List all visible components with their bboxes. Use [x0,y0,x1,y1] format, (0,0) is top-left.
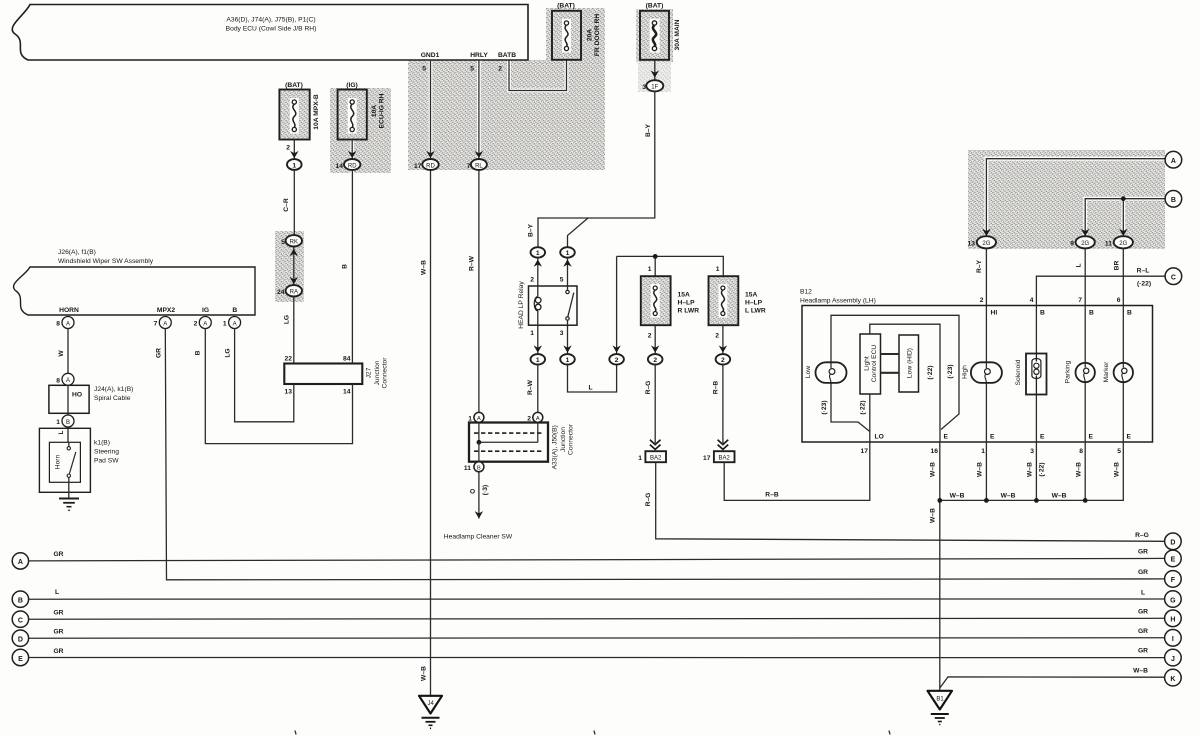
wire L relay pin3 to fuse rail [568,365,617,393]
svg-text:A: A [536,416,540,422]
wire R-B from connector 2 to BA2 [713,365,723,444]
svg-text:(BAT): (BAT) [285,82,303,89]
svg-text:2: 2 [715,333,719,340]
svg-text:H–LP: H–LP [678,300,696,307]
connector 1 (relay pin 2 top) [531,247,546,257]
connector 13 2G [968,236,996,248]
wire B from IG pin to J27 pin 14 [195,329,353,444]
connector 1 (relay pin 5 top) [560,247,575,257]
svg-text:1F: 1F [651,85,658,91]
svg-text:BA2: BA2 [650,456,662,462]
svg-text:GR: GR [53,648,63,655]
wire ECU bottom to LO pin 17 [860,394,870,442]
page connector A (left) [12,553,28,569]
connector J26(A), f1(B) Windshield Wiper SW Assembly box [14,249,255,315]
wire W-B ground bus below headlamp [937,442,1123,691]
wire with mating arrows RK to RA [290,247,298,285]
wire W from HORN pin to spiral cable [58,329,68,374]
svg-text:R–W: R–W [469,255,476,271]
page connector B (left) [12,591,28,607]
page connector D (right) [1165,533,1182,550]
connector 17 BA2 [703,451,734,462]
svg-text:B: B [232,307,237,314]
wire GR page D to page I [29,628,1165,638]
svg-text:1: 1 [716,266,720,273]
connector 1 (relay pin 3 bottom) [560,354,575,364]
svg-text:7: 7 [154,321,158,328]
svg-text:GR: GR [1138,628,1148,635]
wire fuse IG to connector RD [348,140,356,159]
svg-text:Spiral Cable: Spiral Cable [94,395,131,402]
svg-text:Pad SW: Pad SW [94,458,119,465]
shaded halftone strip behind RK/RA connectors [275,231,304,302]
svg-text:1: 1 [648,266,652,273]
svg-text:3: 3 [1030,448,1034,455]
svg-text:30A MAIN: 30A MAIN [674,19,681,50]
svg-text:B: B [1127,310,1132,317]
connector 1 (ellipse) [287,159,302,170]
wire fuse rail [617,254,724,276]
page connector E (left) [12,649,28,665]
svg-text:H: H [1170,617,1175,624]
svg-text:B: B [1089,310,1094,317]
svg-text:HEAD LP Relay: HEAD LP Relay [518,281,525,329]
svg-text:GR: GR [156,348,163,358]
svg-text:3: 3 [642,84,646,91]
svg-text:Light: Light [864,356,871,371]
svg-text:A: A [163,321,167,327]
svg-text:2: 2 [286,145,290,152]
wire LG from RA to J27 pin 22 [284,297,294,364]
svg-text:Control ECU: Control ECU [871,345,878,383]
svg-text:2: 2 [527,415,531,422]
svg-text:(·23): (·23) [947,364,954,378]
pin labels E 3 [1030,434,1045,456]
svg-text:B–Y: B–Y [645,123,652,137]
wire relay pin 1 to connector with arrow [530,325,542,354]
svg-text:B12: B12 [800,289,812,296]
fold tick marks at page bottom [295,731,890,735]
svg-text:(·3): (·3) [482,485,489,495]
shaded halftone region around 20A FR DOOR RH fuse [546,8,605,61]
svg-text:84: 84 [343,356,351,363]
wire L page B to page G [29,589,1165,599]
svg-text:W: W [58,350,65,357]
wire connector to relay pin 2 with arrow [530,258,542,286]
svg-text:I: I [1172,636,1174,643]
svg-text:1: 1 [56,419,60,426]
svg-text:Body ECU (Cowl Side J/B RH): Body ECU (Cowl Side J/B RH) [226,26,317,33]
svg-text:W–B: W–B [1001,492,1016,499]
svg-text:2: 2 [980,297,984,304]
wire L 2G-9 to headlamp pin 7 [1076,248,1086,305]
svg-text:1: 1 [981,448,985,455]
svg-text:Parking: Parking [1065,360,1072,383]
svg-text:A: A [477,416,481,422]
junction connector J27 [284,356,388,396]
svg-text:W–B: W–B [1027,462,1034,477]
svg-text:E: E [18,656,23,663]
svg-text:W–B: W–B [421,666,428,681]
svg-text:Connector: Connector [382,357,389,389]
fuse 10A MPX-B (BAT) [279,82,320,140]
connector 11 2G [1105,236,1133,248]
junction connector A33(A), J50(B) [469,423,575,470]
svg-text:B: B [1040,310,1045,317]
svg-text:BATB: BATB [498,52,516,59]
svg-text:LG: LG [225,348,232,357]
svg-text:GR: GR [1138,648,1148,655]
svg-text:R–Y: R–Y [976,259,983,273]
svg-text:24: 24 [277,289,285,296]
component B12 Headlamp Assembly (LH) box [800,289,1153,443]
svg-text:1: 1 [566,357,570,364]
svg-text:2: 2 [615,357,619,364]
svg-text:15A: 15A [745,292,757,299]
connector 2 (L LWR) [716,354,731,364]
svg-text:17: 17 [861,448,869,455]
wire HI through High bulb [985,306,987,443]
svg-text:HORN: HORN [59,307,79,314]
pin 8A HORN [56,317,74,329]
svg-text:Marker: Marker [1103,361,1110,383]
svg-text:B–Y: B–Y [528,223,535,237]
pin labels LO 17 [861,434,884,456]
bulb Marker [1103,361,1133,383]
wire links ECU to HID [881,354,900,373]
svg-text:W–B: W–B [1052,492,1067,499]
mating chevrons (R-G into BA2) [650,440,661,450]
wire fuse L LWR to connector 2 [715,325,727,354]
svg-text:C: C [1171,275,1176,282]
svg-text:1: 1 [292,162,296,169]
svg-text:17: 17 [703,455,711,462]
svg-text:L: L [55,589,59,596]
svg-text:HO: HO [72,392,82,399]
svg-text:F: F [1171,577,1176,584]
svg-text:MPX2: MPX2 [157,307,175,314]
svg-text:L: L [588,385,592,392]
svg-text:2: 2 [648,333,652,340]
connector 1 (relay pin 1 bottom) [531,354,546,364]
shaded halftone region around 30A MAIN fuse [636,9,673,62]
svg-text:(IG): (IG) [346,82,358,89]
svg-text:R LWR: R LWR [678,308,700,315]
svg-text:Headlamp Assembly (LH): Headlamp Assembly (LH) [800,298,876,305]
wire BR 2G-11 to headlamp pin 6 [1114,248,1124,305]
svg-text:E: E [1127,434,1132,441]
svg-text:FR DOOR RH: FR DOOR RH [594,14,601,57]
svg-text:LO: LO [875,434,884,441]
svg-text:1: 1 [536,250,540,257]
svg-text:B: B [195,350,202,355]
wire O to headlamp cleaner SW [444,472,513,541]
svg-text:Headlamp Cleaner SW: Headlamp Cleaner SW [444,534,513,541]
svg-text:8: 8 [1079,448,1083,455]
wire R-Y 2G-13 to headlamp pin 2 [976,248,986,305]
connector 5 RK [281,235,302,246]
svg-text:J4: J4 [428,701,435,707]
svg-text:Windshield Wiper SW Assembly: Windshield Wiper SW Assembly [58,258,154,265]
svg-text:L: L [1076,263,1083,267]
svg-text:Horn: Horn [55,454,62,469]
shaded halftone region around GND1/HRLY/BATB wires [408,60,605,170]
svg-text:E: E [1040,434,1045,441]
svg-text:10A MPX-B: 10A MPX-B [313,94,320,130]
svg-text:4: 4 [1030,297,1034,304]
svg-text:B: B [18,598,23,605]
svg-text:High: High [962,365,969,379]
svg-text:(·23): (·23) [821,400,828,414]
svg-text:8: 8 [56,377,60,384]
svg-text:L LWR: L LWR [745,308,766,315]
pin 7A MPX2 [154,317,172,329]
wire B from RD to J27 pin 84 [342,170,353,364]
pin 1B steering pad [56,413,74,427]
bulb High beam [962,362,1002,383]
svg-text:1: 1 [536,357,540,364]
svg-text:RD: RD [426,163,435,169]
svg-text:B: B [342,264,349,269]
svg-text:B: B [66,420,70,426]
wire ECU top to pin 16 drop [870,324,940,442]
svg-text:3: 3 [560,330,564,337]
svg-text:(BAT): (BAT) [557,3,575,10]
page connector J (right) [1165,649,1182,666]
svg-text:W–B: W–B [1076,462,1083,477]
page connector H (right) [1165,610,1182,627]
svg-text:1: 1 [566,250,570,257]
wire relay pin 3 to connector with arrow [560,325,572,354]
wire C-R to RK [283,170,294,235]
wire GR page E to page J [29,648,1165,658]
wire 30A MAIN to connector 1F [651,60,659,80]
svg-text:GR: GR [1138,549,1148,556]
svg-text:R–W: R–W [527,379,534,395]
svg-text:5: 5 [470,66,474,73]
wire R-G from connector 2 to BA2 [645,365,655,444]
svg-text:GND1: GND1 [421,52,440,59]
connector 17 RD [414,159,439,170]
component J24(A), k1(B) Spiral Cable [49,385,133,413]
svg-text:W–B: W–B [421,260,428,275]
wire from page connector B to 2G pins 9 and 11 [1081,196,1165,237]
svg-text:J: J [1171,656,1175,663]
fuse 20A FR DOOR RH (BAT) [552,3,601,60]
shaded halftone region behind 2G connectors [968,150,1165,249]
svg-text:GR: GR [53,629,63,636]
svg-text:W–B: W–B [930,508,937,523]
svg-text:13: 13 [968,241,976,248]
svg-text:R–B: R–B [765,491,779,498]
ground (horn switch) [59,499,79,511]
page connector E (right) [1165,550,1182,567]
svg-text:(·22): (·22) [1137,281,1151,288]
svg-text:E: E [1171,557,1176,564]
relay coil [537,286,539,297]
wire B-Y from 1F to HEAD LP relay [528,91,655,247]
wire loop (+23) feed inside headlamp [821,315,959,431]
svg-text:W–B: W–B [930,462,937,477]
wire R-W relay pin1 to A33 pin 2 [527,365,538,413]
fuse 15A H-LP R LWR [641,276,699,325]
svg-text:(·22): (·22) [927,365,934,379]
svg-text:R–G: R–G [645,381,652,395]
svg-text:GR: GR [53,610,63,617]
svg-text:17: 17 [414,163,422,170]
svg-text:2: 2 [194,321,198,328]
pin labels E 1 [981,434,995,456]
wire R-G from BA2 to page connector D [645,462,1165,541]
pin 2A A33 [527,412,543,422]
svg-text:RA: RA [290,290,298,296]
pin 1A A33 [468,412,484,422]
connector 14 RD [336,159,361,170]
svg-text:A: A [18,559,23,566]
pin 8A spiral cable [56,373,74,385]
pin labels E 16 [931,434,949,456]
svg-text:K: K [1170,676,1175,683]
ground J4 [419,696,442,729]
svg-text:A: A [1171,158,1176,165]
fuse 10A ECU-IG RH (IG) [338,82,386,140]
svg-text:14: 14 [336,163,344,170]
svg-text:BA2: BA2 [719,456,731,462]
relay switch [567,286,569,290]
svg-text:5: 5 [560,277,564,284]
page connector C (left) [12,611,28,627]
solenoid [1015,354,1047,395]
wire from page connector A to 2G pin 13 [982,159,1164,237]
wire W-B to page connector K [940,677,1165,688]
svg-text:(·22): (·22) [1039,462,1046,476]
svg-text:2G: 2G [1119,241,1127,247]
svg-text:2G: 2G [982,241,990,247]
svg-text:E: E [1089,434,1094,441]
page connector C (right) [1165,268,1182,285]
pin 11B A33 [464,462,484,472]
connector 7 RL [467,159,487,170]
svg-text:RD: RD [348,163,357,169]
svg-text:GR: GR [53,551,63,558]
fuse 30A MAIN (BAT) [640,3,681,60]
svg-text:RL: RL [475,163,483,169]
svg-text:BR: BR [1114,261,1121,271]
svg-text:5: 5 [281,239,285,246]
svg-text:E: E [990,434,995,441]
svg-text:J27: J27 [366,367,373,378]
svg-text:IG: IG [202,307,209,314]
svg-text:D: D [18,637,23,644]
svg-text:10A: 10A [371,105,378,117]
svg-text:GR: GR [1138,569,1148,576]
wire LG from B pin to J27 pin 13 [225,329,294,422]
svg-text:A36(D), J74(A), J75(B), P1(C): A36(D), J74(A), J75(B), P1(C) [226,17,315,24]
svg-text:2: 2 [653,357,657,364]
svg-text:J24(A), k1(B): J24(A), k1(B) [94,386,133,393]
faint scan dither below 30A MAIN fuse [638,61,671,92]
svg-text:C–R: C–R [283,198,290,212]
connector 9 2G [1070,236,1095,248]
svg-text:R–G: R–G [1135,532,1149,539]
svg-text:5: 5 [422,66,426,73]
connector 3 1F [642,80,663,91]
svg-text:5: 5 [1117,448,1121,455]
switch k1(B) Steering Pad SW (horn switch) [39,427,119,499]
wire pin 7 through parking bulb [1084,306,1086,443]
wire GR page C to page H [29,609,1165,620]
pin 1A B [223,317,241,329]
wire fuse MPX-B to connector 1 [286,140,298,159]
connector 2 (R LWR) [648,354,663,364]
svg-text:7: 7 [467,163,471,170]
pin labels E 5 [1117,434,1131,456]
svg-text:14: 14 [343,389,351,396]
pin 2 HI [980,297,998,317]
svg-text:11: 11 [1105,241,1112,248]
svg-text:A33(A), J50(B): A33(A), J50(B) [552,425,559,469]
connector 2 (on L wire) [609,256,624,364]
ground B1 [928,691,953,725]
wire BATB to 20A fuse [509,60,567,91]
svg-text:16: 16 [931,448,939,455]
wire fuse R LWR to connector 2 [648,325,660,354]
svg-text:B1: B1 [936,697,944,703]
wire HRLY to connector RL [475,60,483,159]
svg-text:Junction: Junction [560,427,567,452]
svg-text:8: 8 [56,321,60,328]
svg-text:J26(A), f1(B): J26(A), f1(B) [58,249,96,256]
svg-text:H–LP: H–LP [745,300,763,307]
connector 24 RA [277,285,302,296]
connector J26/f1 Body ECU (Cowl Side J/B RH) box [12,5,528,61]
svg-text:Steering: Steering [94,449,119,456]
svg-text:15A: 15A [678,292,690,299]
svg-text:9: 9 [1070,241,1074,248]
svg-text:7: 7 [1078,297,1082,304]
svg-text:Connector: Connector [568,423,575,455]
svg-text:L: L [58,430,65,434]
svg-text:13: 13 [285,389,293,396]
svg-text:1: 1 [223,321,227,328]
pin 4 B [1030,297,1045,317]
component Low (HID) [899,335,919,392]
wire connector to relay pin 5 with arrow [560,258,572,286]
svg-text:L: L [1141,590,1145,597]
svg-text:11: 11 [464,465,471,472]
svg-text:W–B: W–B [1133,668,1148,675]
wire R-L from page connector C to headlamp pin 4 [1036,268,1164,306]
pin 6 B [1117,297,1132,317]
bulb Low beam [805,362,847,383]
wire pin 6 through marker bulb [1122,306,1124,443]
fuse 15A H-LP L LWR [709,276,766,325]
svg-text:Junction: Junction [374,360,381,385]
ECU Light Control ECU [860,334,881,394]
svg-text:A: A [233,321,237,327]
svg-text:E: E [944,434,949,441]
svg-text:2: 2 [530,277,534,284]
pin labels E 8 [1079,434,1093,456]
wire pin 4 through solenoid [1035,306,1037,443]
svg-text:k1(B): k1(B) [94,440,110,447]
svg-text:Solenoid: Solenoid [1015,359,1022,385]
svg-text:R–G: R–G [645,493,652,507]
svg-text:(BAT): (BAT) [646,3,664,10]
svg-text:W–B: W–B [1114,462,1121,477]
connector 1 BA2 [638,451,666,462]
page connector K (right) [1165,669,1182,686]
